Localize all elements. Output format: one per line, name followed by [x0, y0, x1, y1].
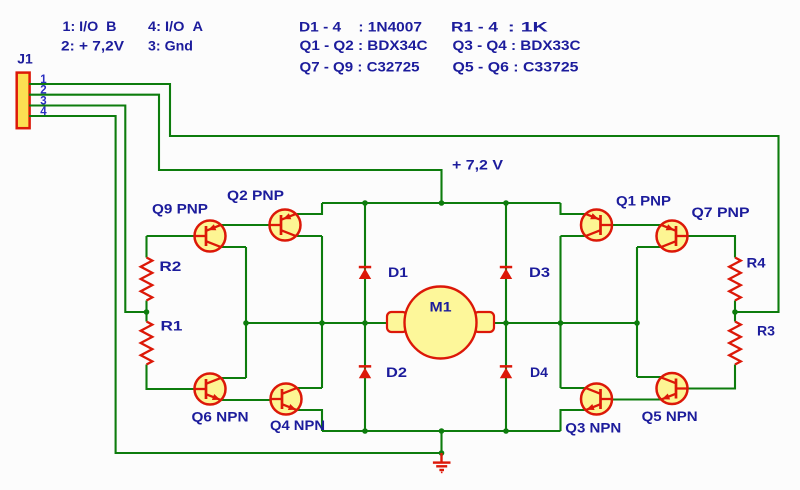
- resistor R3: [729, 322, 741, 365]
- svg-text:J1: J1: [17, 51, 33, 67]
- wire Q3 base to Q5 emitter: [612, 398, 662, 400]
- wire Q9 collector stub: [221, 246, 246, 248]
- wire R4 bottom lead: [734, 301, 736, 322]
- wire motor row left: [246, 322, 388, 324]
- ground symbol: [433, 453, 451, 473]
- wire rail right end to Q1 emitter: [561, 203, 585, 214]
- wire bottom rail: [322, 430, 561, 432]
- diode D3: [500, 266, 512, 279]
- transistor Q3 NPN: [581, 384, 612, 415]
- svg-text:R3: R3: [757, 323, 775, 339]
- svg-text:4: I/O A: 4: I/O A: [148, 18, 203, 34]
- svg-text:D4: D4: [530, 364, 548, 380]
- svg-text:1: I/O B: 1: I/O B: [63, 18, 117, 34]
- wire R3 bottom to Q5 base: [688, 365, 736, 389]
- wire rail left end to Q2 emitter: [297, 203, 322, 214]
- node motor row / Q1-Q3 vertical: [558, 320, 564, 326]
- svg-text:D2: D2: [386, 364, 407, 380]
- wire Q2 collector stub: [297, 235, 322, 237]
- motor M1 body: [405, 287, 477, 359]
- svg-text:: 1K: : 1K: [508, 19, 548, 35]
- wire pin4 I/O A to ground node: [29, 116, 441, 453]
- svg-text:Q5 - Q6 : C33725: Q5 - Q6 : C33725: [453, 59, 579, 75]
- wire Q6 emitter to Q4 base: [221, 399, 271, 401]
- wire Q1/Q3 collector vertical: [559, 236, 561, 388]
- transistor Q7 PNP: [657, 221, 688, 252]
- svg-text:R1 - 4: R1 - 4: [451, 19, 498, 35]
- svg-text:Q1 - Q2 : BDX34C: Q1 - Q2 : BDX34C: [300, 37, 428, 53]
- wire R1 bottom to Q6 base: [147, 365, 196, 390]
- wire R2 bottom lead: [145, 301, 147, 322]
- node top rail / D1 branch: [362, 200, 368, 206]
- node bottom rail / ground branch: [439, 428, 445, 434]
- wire pin3 Gnd to R2/R1 junction: [29, 106, 145, 313]
- transistor Q5 NPN: [657, 373, 688, 404]
- wire Q6 collector stub: [221, 377, 246, 379]
- node motor row / Q9-Q6 vertical: [243, 320, 249, 326]
- wire Q4 collector stub: [297, 387, 322, 389]
- svg-text:R1: R1: [161, 318, 183, 334]
- wire Q1 collector stub: [561, 235, 585, 237]
- node R2/R1 junction: [144, 309, 150, 315]
- wire top supply rail: [322, 202, 561, 204]
- svg-text:Q3 NPN: Q3 NPN: [565, 420, 621, 436]
- wire left bridge vertical D1 D2: [364, 203, 366, 431]
- node motor row / Q2-Q4 vertical: [319, 320, 325, 326]
- wire pin2 +7,2V supply: [29, 95, 442, 202]
- wire Q3 collector stub: [561, 387, 585, 389]
- wire Q7 collector stub: [637, 246, 661, 248]
- diode D4: [500, 365, 512, 378]
- diode D1: [359, 266, 371, 279]
- node bottom rail / D2 branch: [362, 428, 368, 434]
- node top rail / supply entry: [439, 200, 445, 206]
- svg-text:D1: D1: [388, 264, 408, 280]
- node motor row / D1-D2 vertical: [362, 320, 368, 326]
- wire Q7/Q5 collector vertical: [636, 247, 638, 377]
- svg-text:R2: R2: [159, 258, 181, 274]
- svg-text:Q9 PNP: Q9 PNP: [152, 201, 208, 217]
- wire ground stub: [440, 431, 442, 453]
- transistor Q9 PNP: [195, 221, 226, 252]
- node ground / pin4 wire: [439, 450, 445, 456]
- transistor Q1 PNP: [581, 210, 612, 241]
- wire Q1 base to Q7 emitter: [612, 224, 662, 226]
- svg-text:Q5 NPN: Q5 NPN: [642, 408, 698, 424]
- transistor Q6 NPN: [195, 374, 226, 405]
- svg-text:M1: M1: [430, 299, 452, 315]
- wire right bridge vertical D3 D4: [505, 203, 507, 431]
- diode D2: [359, 365, 371, 378]
- node motor row / Q7-Q5 vertical: [634, 320, 640, 326]
- connector J1: [17, 73, 30, 129]
- wire Q7 base to R4: [688, 236, 736, 258]
- resistor R4: [729, 258, 741, 301]
- wire Q2/Q4 collector vertical: [321, 236, 323, 388]
- wire Q5 collector stub: [637, 376, 661, 378]
- wire Q4 emitter to bottom rail: [297, 410, 322, 431]
- svg-text:Q4 NPN: Q4 NPN: [270, 417, 325, 433]
- svg-text:3: Gnd: 3: Gnd: [148, 38, 193, 54]
- wire Q9 base to R2: [147, 236, 196, 258]
- node R4/R3 junction: [732, 309, 738, 315]
- svg-text:+ 7,2 V: + 7,2 V: [452, 157, 504, 173]
- svg-text:Q3 - Q4 : BDX33C: Q3 - Q4 : BDX33C: [453, 37, 581, 53]
- wire motor row right: [493, 322, 637, 324]
- resistor R1: [141, 322, 153, 365]
- svg-text:R4: R4: [747, 255, 766, 271]
- node top rail / D3 branch: [503, 200, 509, 206]
- svg-text:D3: D3: [529, 264, 550, 280]
- svg-text:Q7 - Q9 : C32725: Q7 - Q9 : C32725: [300, 59, 420, 75]
- wire pin1 I/O B to R4/R3 junction: [29, 84, 779, 312]
- node bottom rail / D4 branch: [503, 428, 509, 434]
- wire Q3 emitter to bottom rail: [561, 410, 585, 431]
- node motor row / D3-D4 vertical: [503, 320, 509, 326]
- svg-text:Q1 PNP: Q1 PNP: [616, 193, 671, 209]
- transistor Q4 NPN: [271, 384, 302, 415]
- svg-text:Q7 PNP: Q7 PNP: [692, 204, 750, 220]
- transistor Q2 PNP: [270, 210, 301, 241]
- motor M1 terminals: [387, 312, 494, 332]
- svg-text:Q2 PNP: Q2 PNP: [227, 187, 284, 203]
- resistor R2: [141, 258, 153, 301]
- wire Q9 emitter to Q2 base: [221, 224, 270, 226]
- wire Q9/Q6 collector vertical: [245, 247, 247, 378]
- svg-text:Q6 NPN: Q6 NPN: [192, 409, 249, 425]
- svg-text:D1 - 4 : 1N4007: D1 - 4 : 1N4007: [299, 19, 422, 35]
- svg-text:2: + 7,2V: 2: + 7,2V: [61, 38, 125, 54]
